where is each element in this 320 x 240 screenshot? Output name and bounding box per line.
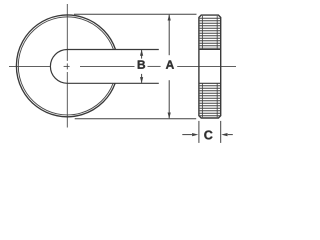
side view knurl hatch upper band [200,18,220,48]
side view chamfer line right upper [216,16,218,50]
side view slot bottom edge [199,82,221,84]
dimension A bottom extension line [75,118,197,120]
side view chamfer line left lower [201,83,203,117]
dimension B line lower segment [141,74,143,83]
vertical centerline [66,4,68,128]
dimension B label [138,60,145,68]
dimension A line lower segment [168,80,170,118]
dimension C right arrow [221,133,227,136]
side view knurl hatch lower band [200,86,220,116]
C-washer technical drawing [0,0,238,156]
dimension A line upper segment [168,15,170,55]
horizontal centerline [9,65,236,67]
side view slot top edge [199,49,221,51]
center hole semicircle [50,50,67,84]
dimension B line upper segment [141,50,143,59]
dimension B lower arrow [140,77,143,83]
side view chamfer line right lower [216,83,218,117]
dimension C right leader [228,134,233,136]
dimension C left arrow [192,133,198,136]
dimension A label [166,60,174,68]
dimension A lower arrow [168,113,171,119]
slot top edge / B extension line [67,49,159,51]
dimension C left extension line [198,121,200,143]
dimension A upper arrow [168,14,171,20]
side view outline (chamfered) [199,15,221,118]
side view chamfer line left upper [201,16,203,50]
washer outer circle (slotted) [16,15,115,117]
dimension C left leader [182,134,192,136]
dimension A top extension line [74,13,197,15]
dimension B upper arrow [140,50,143,56]
washer inner rim circle (slotted) [18,17,113,115]
dimension C label [204,131,212,140]
slot bottom edge / B extension line [67,82,159,84]
dimension C right extension line [220,121,222,143]
